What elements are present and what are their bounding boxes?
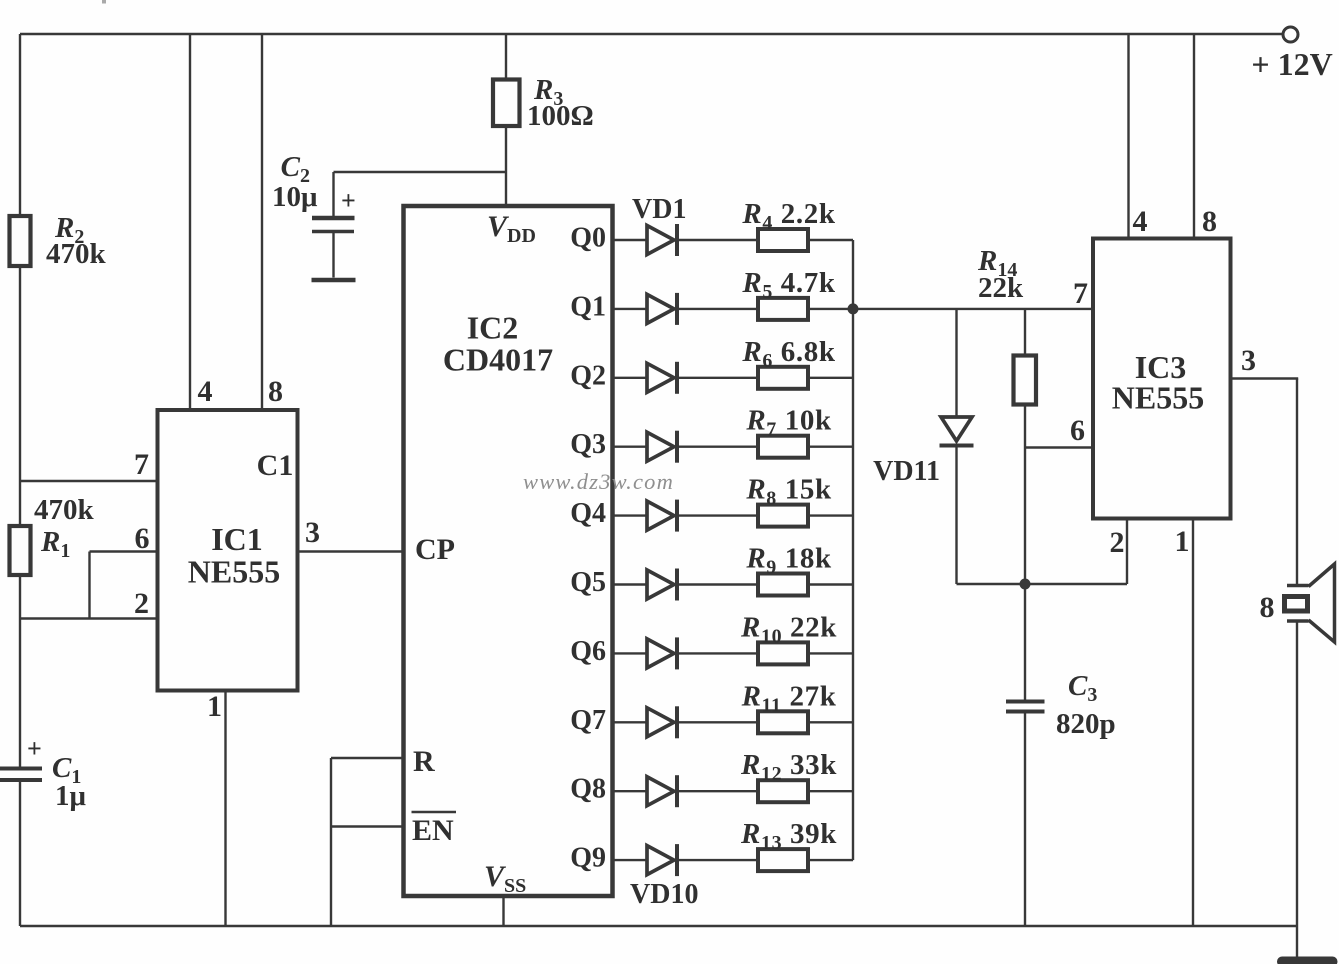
diode VD2 <box>613 308 648 310</box>
wire IC3 pin8 to rail <box>1193 34 1195 239</box>
wire pin3 down to speaker <box>1296 379 1298 586</box>
speaker terminals <box>1287 584 1309 588</box>
svg-text:R12 33k: R12 33k <box>740 749 837 785</box>
wire R13 to bus <box>808 859 853 861</box>
svg-text:10μ: 10μ <box>272 181 318 213</box>
svg-text:4: 4 <box>1133 205 1148 238</box>
wire VD11 top <box>955 309 957 417</box>
svg-text:VD11: VD11 <box>873 456 940 487</box>
svg-text:C1: C1 <box>257 449 294 482</box>
svg-text:1: 1 <box>1175 525 1190 558</box>
wire diode to R4 <box>679 239 758 241</box>
diode VD9 <box>613 790 648 792</box>
wire VSS to rail <box>502 896 504 926</box>
wire top +12V rail <box>20 33 1282 35</box>
svg-text:Q6: Q6 <box>570 636 606 667</box>
wire pin2 down <box>1126 519 1128 585</box>
svg-text:1μ: 1μ <box>55 780 87 812</box>
diode VD10 <box>613 859 648 861</box>
svg-text:EN: EN <box>412 814 454 847</box>
svg-text:Q5: Q5 <box>570 567 606 598</box>
wire diode to R13 <box>679 859 758 861</box>
svg-text:22k: 22k <box>978 272 1024 304</box>
wire diode to R9 <box>679 583 758 585</box>
wire left rail bottom <box>19 782 21 927</box>
wire R4 to bus <box>808 239 853 241</box>
wire diode to R10 <box>679 652 758 654</box>
wire R pin <box>331 757 404 759</box>
wire C2 lead <box>332 172 334 216</box>
svg-text:R9 18k: R9 18k <box>745 543 832 579</box>
wire pin6 <box>90 550 158 552</box>
timer IC3 NE555 box <box>1093 239 1231 519</box>
svg-text:CD4017: CD4017 <box>443 342 553 378</box>
svg-text:NE555: NE555 <box>188 554 280 590</box>
wire bus to IC3 pin7 <box>853 308 1093 310</box>
svg-text:470k: 470k <box>46 238 107 270</box>
wire pin3 to CP <box>298 550 404 552</box>
wire IC1 pin8 to rail <box>261 34 263 410</box>
svg-text:8: 8 <box>268 375 283 408</box>
wire R3 top <box>505 34 507 80</box>
op-amp IC1 NE555 box <box>158 410 298 691</box>
diode VD1 <box>613 239 648 241</box>
svg-text:R7 10k: R7 10k <box>745 405 832 441</box>
resistor R9 18k <box>758 574 808 596</box>
wire IC3 pin4 to rail <box>1127 34 1129 239</box>
svg-text:820p: 820p <box>1056 708 1116 740</box>
diode VD6 <box>613 583 648 585</box>
svg-text:R13 39k: R13 39k <box>740 818 837 854</box>
svg-text:Q4: Q4 <box>570 498 606 529</box>
wire pin6 <box>1025 446 1093 448</box>
svg-text:IC1: IC1 <box>211 521 263 557</box>
wire VD11 bottom <box>955 448 957 585</box>
resistor R2 <box>10 216 31 266</box>
wire VD11/R14/pin2 link <box>957 583 1128 585</box>
svg-text:VD10: VD10 <box>630 879 698 910</box>
svg-text:R8 15k: R8 15k <box>745 474 832 510</box>
svg-text:7: 7 <box>134 448 149 481</box>
resistor R7 10k <box>758 436 808 458</box>
diode VD8 <box>613 721 648 723</box>
wire pin3 out <box>1231 377 1299 379</box>
wire R10 to bus <box>808 652 853 654</box>
wire diode to R7 <box>679 446 758 448</box>
svg-text:2: 2 <box>134 587 149 620</box>
junction node C3 top <box>1020 579 1031 590</box>
capacitor C3 <box>1006 700 1045 704</box>
svg-text:VD1: VD1 <box>632 194 686 225</box>
wire C3 top lead <box>1024 584 1026 700</box>
node +12V terminal <box>1283 27 1298 42</box>
diode VD5 <box>613 514 648 516</box>
svg-text:R5 4.7k: R5 4.7k <box>741 267 835 303</box>
wire left rail lower <box>19 575 21 767</box>
svg-text:IC2: IC2 <box>467 310 519 346</box>
svg-text:NE555: NE555 <box>1112 380 1204 416</box>
wire R5 to bus <box>808 308 853 310</box>
wire R14 bottom <box>1024 405 1026 585</box>
svg-text:Q0: Q0 <box>570 223 606 254</box>
wire IC1 pin4 to rail <box>189 34 191 410</box>
wire R9 to bus <box>808 583 853 585</box>
wire left rail upper <box>19 34 21 216</box>
resistor R8 15k <box>758 505 808 527</box>
resistor R6 6.8k <box>758 367 808 389</box>
wire pin6 drop <box>88 552 90 619</box>
svg-text:+ 12V: + 12V <box>1251 46 1332 82</box>
svg-text:4: 4 <box>198 375 213 408</box>
junction node bus/Q1 <box>848 303 859 314</box>
wire diode to R6 <box>679 377 758 379</box>
svg-text:1: 1 <box>207 690 222 723</box>
svg-text:www.dz3w.com: www.dz3w.com <box>523 469 674 494</box>
resistor R11 27k <box>758 711 808 733</box>
speaker horn <box>1309 564 1335 642</box>
svg-text:R10 22k: R10 22k <box>740 611 837 647</box>
svg-text:Q8: Q8 <box>570 774 606 805</box>
svg-text:R: R <box>413 745 435 778</box>
svg-text:470k: 470k <box>34 494 95 526</box>
speaker magnet <box>1285 597 1308 612</box>
svg-text:R11 27k: R11 27k <box>741 680 837 716</box>
wire R7 to bus <box>808 446 853 448</box>
svg-text:3: 3 <box>305 516 320 549</box>
resistor R14 <box>1014 356 1037 405</box>
diode VD4 <box>613 446 648 448</box>
wire R/EN drop <box>330 758 332 926</box>
resistor R13 39k <box>758 849 808 871</box>
ground bar <box>1277 957 1338 964</box>
wire pin1 to ground rail <box>224 691 226 927</box>
wire R8 to bus <box>808 514 853 516</box>
wire diode to R8 <box>679 514 758 516</box>
svg-text:7: 7 <box>1073 277 1088 310</box>
capacitor C1 <box>0 767 42 771</box>
svg-text:2: 2 <box>1110 526 1125 559</box>
wire pin2 <box>20 617 158 619</box>
svg-text:+: + <box>27 734 42 763</box>
bus wire <box>852 240 854 860</box>
resistor R4 2.2k <box>758 229 808 251</box>
counter IC2 CD4017 box <box>404 206 613 896</box>
svg-text:6: 6 <box>1070 414 1085 447</box>
resistor R10 22k <box>758 642 808 664</box>
speck artifact <box>102 0 106 4</box>
resistor R1 <box>10 526 31 575</box>
svg-text:Q7: Q7 <box>570 705 606 736</box>
svg-text:R4 2.2k: R4 2.2k <box>741 198 835 234</box>
wire pin1 down to rail <box>1192 519 1194 927</box>
wire R14 top <box>1024 309 1026 356</box>
svg-text:+: + <box>341 186 356 215</box>
diode VD3 <box>613 377 648 379</box>
wire left rail mid <box>19 266 21 526</box>
svg-text:6: 6 <box>135 522 150 555</box>
capacitor C2 <box>312 216 355 221</box>
wire diode to R5 <box>679 308 758 310</box>
svg-text:R6 6.8k: R6 6.8k <box>741 336 835 372</box>
diode VD11 <box>941 417 972 441</box>
wire R6 to bus <box>808 377 853 379</box>
diode VD7 <box>613 652 648 654</box>
wire bottom rail <box>20 925 1297 927</box>
svg-text:Q1: Q1 <box>570 291 606 322</box>
wire diode to R11 <box>679 721 758 723</box>
svg-text:8: 8 <box>1260 591 1275 624</box>
wire diode to R12 <box>679 790 758 792</box>
svg-text:8: 8 <box>1202 205 1217 238</box>
wire R3 bottom to VDD <box>505 126 507 206</box>
wire C2 top link <box>334 171 507 173</box>
svg-text:3: 3 <box>1241 344 1256 377</box>
svg-text:100Ω: 100Ω <box>527 100 594 132</box>
svg-text:Q2: Q2 <box>570 360 606 391</box>
resistor R12 33k <box>758 780 808 802</box>
svg-text:Q9: Q9 <box>570 843 606 874</box>
wire EN pin <box>331 825 404 827</box>
resistor R5 4.7k <box>758 298 808 320</box>
svg-text:Q3: Q3 <box>570 429 606 460</box>
wire R11 to bus <box>808 721 853 723</box>
wire pin7 <box>20 480 158 482</box>
wire speaker down <box>1296 622 1298 957</box>
wire C3 bottom lead <box>1024 713 1026 926</box>
svg-text:CP: CP <box>415 533 455 566</box>
wire R12 to bus <box>808 790 853 792</box>
resistor R3 <box>493 80 520 127</box>
